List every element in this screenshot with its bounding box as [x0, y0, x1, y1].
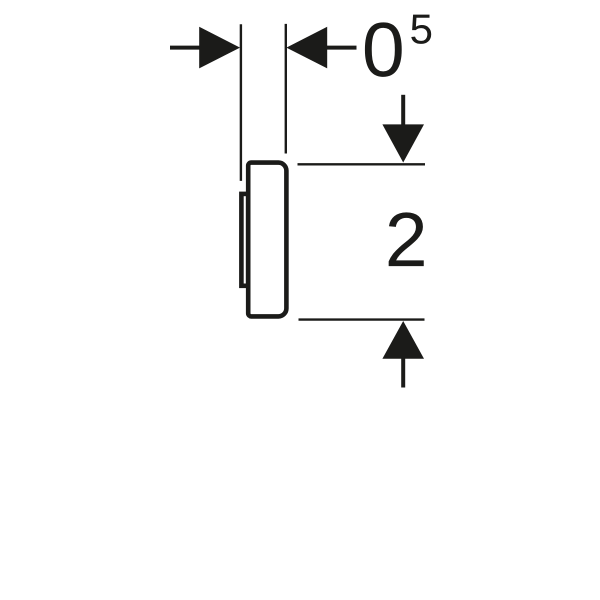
upper dimension tail wire: [401, 95, 405, 126]
dimension label 2: [389, 212, 424, 266]
mounting frame (rear plate): [241, 194, 248, 286]
actuator plate body (side view): [248, 163, 286, 317]
lower dimension tail wire: [401, 357, 405, 388]
right dimension tail wire: [326, 46, 357, 50]
left dimension tail wire: [170, 46, 201, 50]
down arrow head: [382, 124, 424, 162]
extension line right (width dim): [285, 24, 287, 154]
up arrow head: [382, 321, 424, 359]
left arrow head: [199, 27, 240, 69]
extension line top (height dim): [298, 163, 426, 165]
extension line bottom (height dim): [299, 318, 425, 320]
extension line left (width dim): [240, 24, 242, 181]
right arrow head: [286, 27, 327, 69]
dimension label superscript 5: [411, 15, 431, 44]
dimension label 0: [365, 22, 402, 77]
